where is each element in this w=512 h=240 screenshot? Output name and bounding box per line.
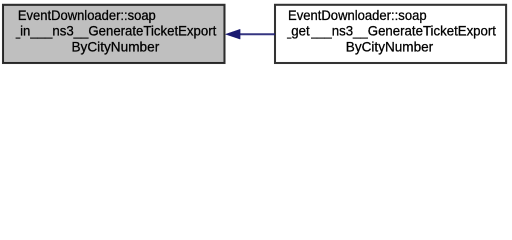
arrowhead pointing left: [226, 29, 241, 39]
edge wire: call arrow from soap_get node to soap_in node: [239, 33, 275, 35]
node box: EventDownloader::soap_get___ns3__GenerateTicketExportByCityNumber: [275, 5, 506, 63]
underscore trim right node: [283, 36, 287, 40]
svg-text:_in___ns3__GenerateTicketExpor: _in___ns3__GenerateTicketExport: [12, 22, 217, 38]
underscore trim right node group 2: [309, 36, 311, 40]
svg-text:ByCityNumber: ByCityNumber: [346, 38, 434, 54]
svg-text:ByCityNumber: ByCityNumber: [71, 38, 159, 54]
svg-text:_get___ns3__GenerateTicketExpo: _get___ns3__GenerateTicketExport: [283, 22, 496, 38]
svg-text:EventDownloader::soap: EventDownloader::soap: [18, 7, 156, 23]
node box: EventDownloader::soap_in___ns3__GenerateTicketExportByCityNumber (current node, grey): [3, 5, 225, 63]
svg-text:EventDownloader::soap: EventDownloader::soap: [288, 7, 427, 23]
underscore trim left node: [12, 36, 15, 40]
